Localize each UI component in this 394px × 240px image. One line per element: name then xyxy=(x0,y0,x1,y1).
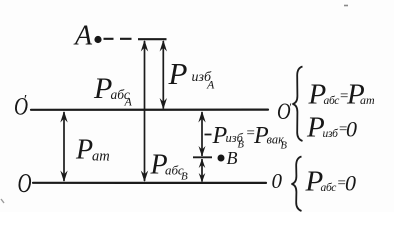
paper speck top right xyxy=(344,5,348,7)
svg-text:В: В xyxy=(238,140,245,151)
datum line O (lower) xyxy=(33,182,266,185)
equation P_izb = 0 xyxy=(306,112,357,144)
B level tick xyxy=(193,156,212,158)
svg-text:В: В xyxy=(281,141,288,152)
svg-text:0: 0 xyxy=(345,171,356,196)
value label -P_izb_B = P_vak_B xyxy=(205,123,288,152)
wire: P_izb_A vertical arrow (A level to O' line) xyxy=(162,41,164,109)
equation P_abs = 0 xyxy=(305,166,357,198)
brace lower right xyxy=(292,157,302,212)
svg-text:Р: Р xyxy=(168,56,188,91)
svg-text:0: 0 xyxy=(272,169,283,193)
value label P_at xyxy=(75,135,110,166)
value label P_abs_A xyxy=(93,72,133,109)
svg-text:Р: Р xyxy=(93,72,112,105)
svg-text:Р: Р xyxy=(75,135,93,166)
svg-text:ат: ат xyxy=(360,93,375,107)
svg-text:изб: изб xyxy=(323,128,340,140)
brace upper right xyxy=(293,67,303,142)
svg-text:абс: абс xyxy=(321,182,337,194)
equation P_abs = P_at xyxy=(308,79,376,111)
wire: P_abs_A vertical arrow (A level to O line) xyxy=(144,41,146,181)
svg-text:В: В xyxy=(181,171,188,183)
value label P_abs_B xyxy=(150,150,189,183)
wire: P_at vertical arrow (O' line to O line) xyxy=(63,112,65,181)
svg-text:0: 0 xyxy=(346,117,357,142)
svg-text:абс: абс xyxy=(324,95,340,107)
svg-text:А: А xyxy=(206,78,215,92)
wire: P_abs_B arrow (B level to O line) xyxy=(201,159,203,182)
svg-text:′: ′ xyxy=(289,100,292,114)
wire: -P_izb_B / P_vak_B arrow (O' line to B level) xyxy=(201,112,203,156)
node A point xyxy=(94,36,101,43)
svg-text:В: В xyxy=(227,148,238,168)
value label P_izb_A xyxy=(168,56,216,92)
level bar atop arrows at A xyxy=(138,38,167,40)
svg-text:А: А xyxy=(124,95,133,109)
svg-text:ат: ат xyxy=(92,149,110,165)
paper speck bottom left xyxy=(1,199,4,203)
svg-text:О: О xyxy=(18,169,32,199)
node B point xyxy=(218,155,225,162)
svg-text:А: А xyxy=(73,21,93,52)
datum line O' (upper) xyxy=(31,108,268,110)
dashed level line from A xyxy=(104,38,132,40)
